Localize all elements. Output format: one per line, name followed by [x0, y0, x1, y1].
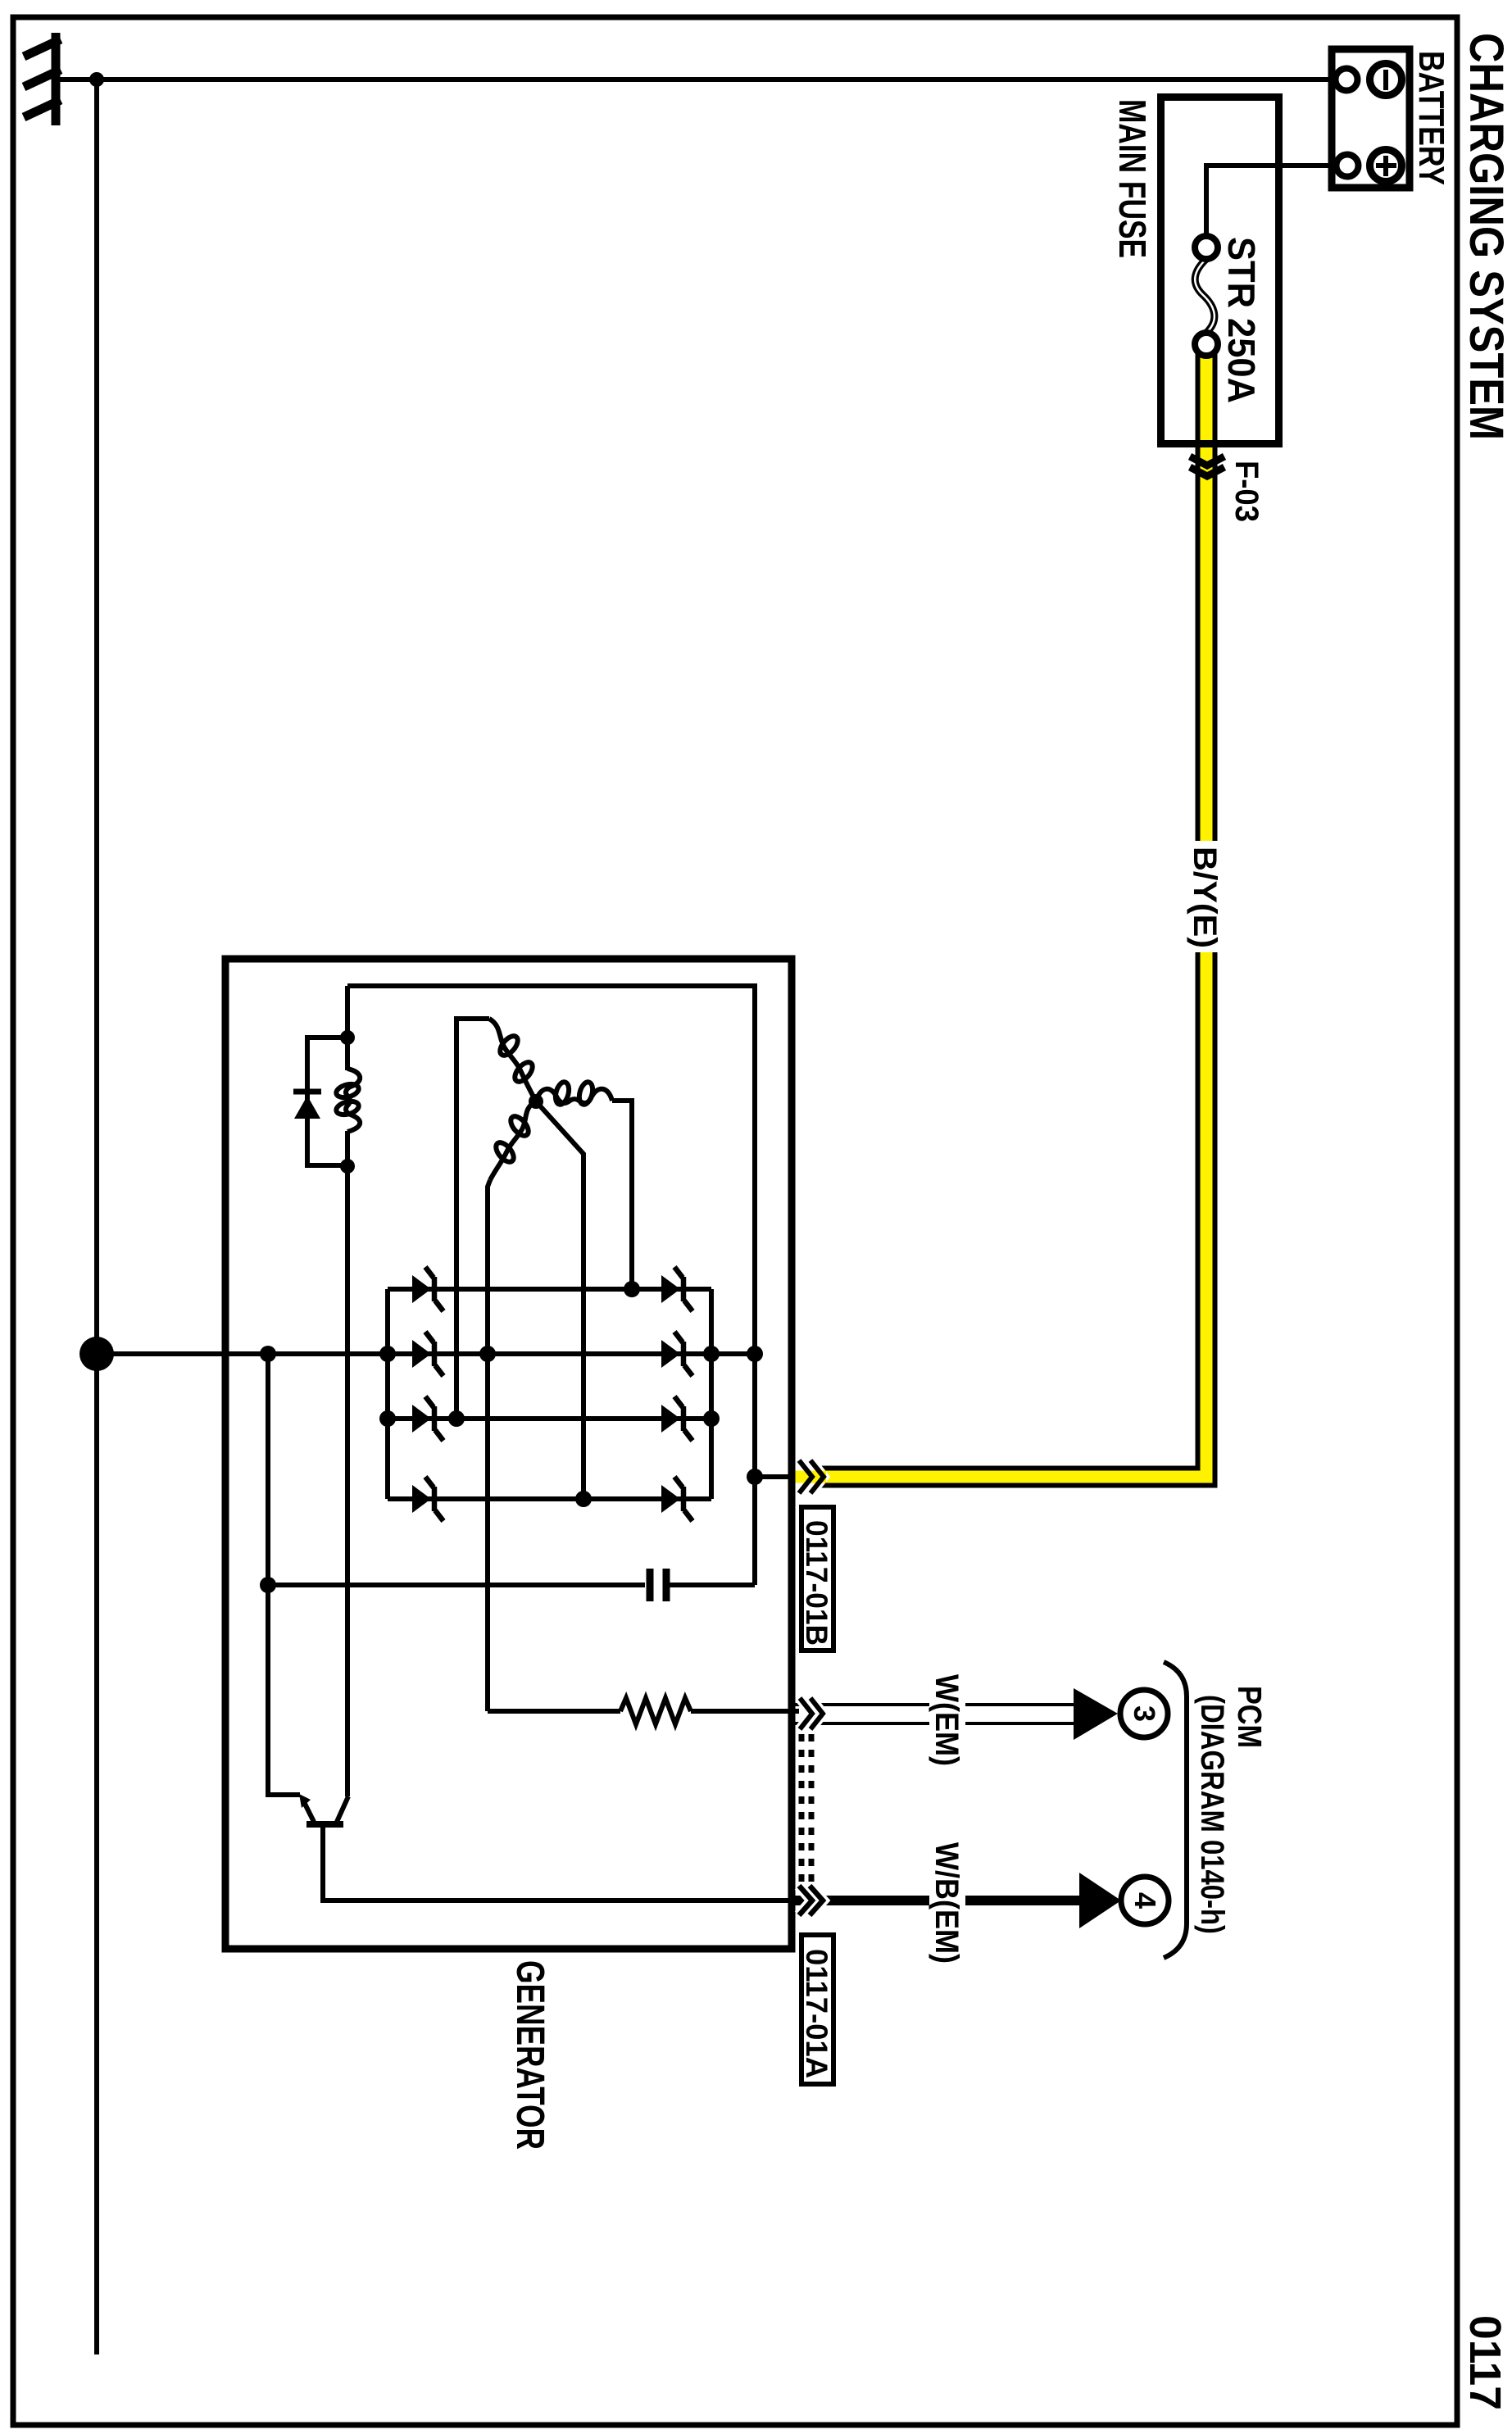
diode D8 row4 right — [661, 1477, 692, 1521]
ground — [24, 33, 61, 125]
svg-text:3: 3 — [1128, 1705, 1161, 1722]
diode D5 row1 right — [661, 1267, 692, 1311]
wire field line left vertical — [345, 986, 350, 1070]
label W/B(EM) halo — [929, 1837, 965, 1969]
diode D4 row4 left — [412, 1477, 443, 1521]
node dot phase C tap — [479, 1346, 496, 1362]
rectifier ladder right rail — [709, 1289, 714, 1499]
wire W(EM) double line — [795, 1703, 1074, 1706]
transistor Q1 — [299, 1794, 799, 1900]
node dot left rail row2 — [379, 1346, 396, 1362]
node dot capacitor junction — [260, 1577, 276, 1593]
rectifier row 1 — [388, 1287, 711, 1292]
connector F-03 chevrons — [1190, 456, 1224, 465]
wire zener branch — [307, 1038, 347, 1165]
diode D3 row3 left — [412, 1396, 443, 1441]
base lead down — [323, 1828, 799, 1900]
wire battery negative to ground bus — [59, 77, 1336, 82]
node dot field coil top — [340, 1030, 355, 1045]
wire capacitor right — [670, 1583, 755, 1587]
wire left internal vertical — [268, 1354, 300, 1795]
rectifier row 2 bus — [388, 1351, 755, 1356]
diode D6 row2 right — [661, 1332, 692, 1376]
fuse terminal circle bottom — [1195, 333, 1218, 356]
svg-text:0117: 0117 — [1460, 2315, 1510, 2410]
dashed connector boundary lines — [799, 1734, 805, 1883]
wire capacitor left — [268, 1583, 645, 1587]
connector chevrons W(EM) — [800, 1698, 812, 1729]
node dot right rail row2 — [703, 1346, 720, 1362]
battery minus symbol — [1370, 64, 1402, 96]
rectifier row 3 — [388, 1416, 711, 1421]
fuse terminal circle top — [1195, 236, 1218, 259]
connector chevrons W/B(EM) thick — [799, 1886, 812, 1915]
inductor stator phase A coil — [489, 1019, 536, 1101]
PCM pin 3 circle — [1120, 1690, 1168, 1737]
node dot left internal top — [260, 1346, 276, 1362]
collector diagonal — [337, 1796, 348, 1822]
diode D1 row1 left — [412, 1267, 443, 1311]
wire phase C tap vertical — [488, 1180, 490, 1711]
wire phase A tap vertical — [456, 1019, 489, 1419]
resistor wire right — [691, 1709, 799, 1714]
label B/Y(E) on yellow wire — [1185, 841, 1223, 952]
inductor stator phase B coil — [536, 1089, 612, 1103]
node dot phase B tap — [624, 1281, 640, 1297]
svg-text:B/Y(E): B/Y(E) — [1187, 847, 1223, 948]
node dot phase A tap — [448, 1410, 465, 1427]
diode D2 row2 left — [412, 1332, 443, 1376]
base bar — [306, 1821, 343, 1828]
PCM pin 4 circle — [1121, 1877, 1169, 1924]
svg-text:0117-01A: 0117-01A — [800, 1949, 833, 2078]
rectifier row 4 — [388, 1496, 711, 1501]
resistor zigzag — [620, 1698, 691, 1724]
node dot right rail row3 — [703, 1410, 720, 1427]
svg-text:F-03: F-03 — [1228, 461, 1265, 522]
connector label 0117-01A box — [801, 1935, 833, 2084]
svg-text:(DIAGRAM 0140-h): (DIAGRAM 0140-h) — [1194, 1695, 1230, 1934]
svg-text:4: 4 — [1128, 1892, 1162, 1909]
connector label 0117-01B box — [801, 1507, 833, 1651]
wire neutral tap diagonal — [536, 1101, 583, 1500]
generator GENERATOR box — [225, 959, 792, 1949]
wire B/Y(E) yellow core segment at connector — [792, 1471, 826, 1483]
wire generator ground bus row2 out to left — [97, 1351, 388, 1356]
PCM pin 4 triangle — [1079, 1873, 1121, 1928]
fuse STR 250A element — [1195, 259, 1215, 333]
node junction dot at ground wire top — [89, 72, 104, 87]
node dot field coil bottom — [340, 1159, 355, 1174]
inductor field coil — [346, 1069, 360, 1132]
resistor wire left — [488, 1709, 620, 1714]
svg-text:CHARGING SYSTEM: CHARGING SYSTEM — [1460, 33, 1512, 440]
svg-text:0117-01B: 0117-01B — [800, 1520, 833, 1646]
rectifier ladder left rail — [385, 1289, 390, 1499]
battery terminal pin circle (negative) — [1336, 69, 1358, 91]
emitter arrow diagonal — [304, 1802, 314, 1822]
wire B/Y(E) yellow core — [792, 352, 1206, 1477]
PCM pin 3 triangle — [1074, 1688, 1118, 1740]
inductor stator phase C coil — [490, 1101, 536, 1180]
svg-text:MAIN FUSE: MAIN FUSE — [1111, 99, 1154, 258]
node dot left rail row3 — [379, 1410, 396, 1427]
battery plus symbol — [1370, 150, 1402, 182]
wire W/B(EM) thick — [795, 1896, 1079, 1905]
wire phase B tap — [612, 1101, 632, 1289]
node dot neutral tap — [575, 1491, 592, 1507]
fuse box MAIN FUSE — [1161, 98, 1279, 444]
node dot B+ rail row2 — [747, 1346, 763, 1362]
diode D7 row3 right — [661, 1396, 692, 1441]
wire B/Y(E) yellow wire black outline — [820, 352, 1206, 1477]
wire battery positive to main fuse — [1206, 166, 1336, 237]
svg-text:GENERATOR: GENERATOR — [508, 1960, 552, 2150]
wire internal B+ rail top edge — [347, 986, 755, 1585]
svg-text:W(EM): W(EM) — [929, 1674, 965, 1766]
diode zener flyback (points up) — [293, 1089, 321, 1095]
wire B+ output to connector — [755, 1474, 795, 1479]
node big junction dot ground bus / generator bus — [79, 1337, 114, 1371]
stator star center node — [529, 1094, 543, 1109]
svg-text:PCM: PCM — [1231, 1686, 1269, 1748]
svg-text:BATTERY: BATTERY — [1411, 51, 1451, 185]
node dot B+ rail output — [747, 1469, 763, 1485]
connector chevrons B+ output — [799, 1460, 812, 1493]
capacitor plates — [647, 1569, 654, 1601]
label W(EM) halo — [929, 1669, 965, 1771]
battery terminal pin circle (positive) — [1337, 155, 1359, 177]
svg-text:W/B(EM): W/B(EM) — [929, 1842, 965, 1964]
battery BATTERY box — [1332, 49, 1410, 188]
PCM bracket — [1164, 1662, 1187, 1958]
svg-text:STR 250A: STR 250A — [1220, 237, 1263, 403]
